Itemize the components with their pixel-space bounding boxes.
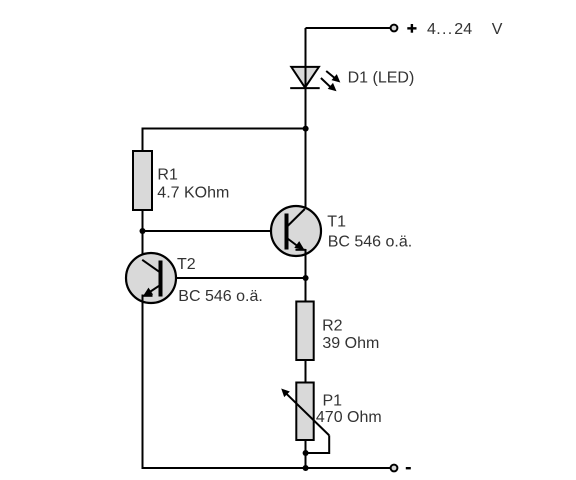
svg-text:39 Ohm: 39 Ohm: [322, 335, 379, 352]
junction node LED/R1 branch: [303, 126, 309, 132]
label R1 4.7 KOhm: [157, 167, 229, 202]
wire P1 bottom to bottom rail: [305, 441, 307, 469]
label P1 470 Ohm: [316, 392, 382, 426]
wire R1 bottom to junction: [142, 210, 144, 231]
terminal minus: [391, 465, 398, 472]
transistor T2: [126, 253, 176, 303]
wire anode from top rail through LED: [305, 28, 307, 88]
junction node R1/T1 base/T2 collector: [140, 228, 146, 234]
wire top rail: [306, 27, 392, 29]
LED D1 triangle: [291, 67, 319, 88]
wire T1 base: [143, 230, 287, 232]
svg-text:P1: P1: [323, 392, 343, 409]
potentiometer P1 wiper arrow: [281, 389, 329, 436]
wire T2 emitter to bottom rail: [142, 295, 144, 470]
svg-text:...: ...: [436, 21, 453, 38]
label T2 BC 546 o.ä.: [177, 256, 263, 305]
LED D1 light arrow 2: [321, 78, 337, 91]
svg-text:470 Ohm: 470 Ohm: [316, 409, 382, 426]
wire branch horizontal to R1: [142, 128, 306, 130]
label R2 39 Ohm: [322, 318, 379, 353]
svg-text:24: 24: [454, 21, 472, 38]
wire P1 wiper to bottom terminal: [306, 435, 330, 453]
wire R1 top lead: [142, 128, 144, 152]
svg-text:V: V: [492, 21, 503, 38]
wire bottom rail: [143, 467, 392, 469]
LED D1 cathode bar: [290, 87, 320, 89]
wire T1 emitter to R2: [305, 249, 307, 302]
LED D1 light arrow 1: [326, 71, 340, 83]
potentiometer P1 body: [296, 383, 313, 441]
label + polarity symbol: [407, 24, 416, 33]
svg-text:D1 (LED): D1 (LED): [348, 70, 415, 87]
label T1 BC 546 o.ä.: [327, 214, 412, 251]
resistor R1: [133, 151, 152, 210]
svg-text:BC 546 o.ä.: BC 546 o.ä.: [178, 288, 262, 305]
svg-text:4.7 KOhm: 4.7 KOhm: [157, 184, 229, 201]
label D1 (LED): [348, 70, 415, 87]
wire T2 base: [161, 277, 306, 279]
junction node T1 emitter/T2 base: [303, 275, 309, 281]
wire R2 bottom to P1: [305, 361, 307, 383]
label - polarity symbol: [406, 467, 411, 469]
transistor T1: [271, 206, 321, 256]
svg-text:R2: R2: [322, 318, 343, 335]
terminal plus: [391, 25, 398, 32]
wire T2 collector: [142, 231, 144, 260]
junction node bottom rail: [303, 465, 309, 471]
label 4...24 V supply voltage: [427, 21, 503, 38]
svg-text:BC 546 o.ä.: BC 546 o.ä.: [328, 233, 413, 250]
svg-text:4: 4: [427, 21, 436, 38]
svg-text:R1: R1: [157, 167, 178, 184]
resistor R2: [296, 302, 313, 361]
svg-text:T1: T1: [327, 214, 346, 231]
junction node wiper tie: [303, 450, 309, 456]
wire cathode to T1 collector: [305, 88, 307, 209]
svg-text:T2: T2: [177, 256, 196, 273]
